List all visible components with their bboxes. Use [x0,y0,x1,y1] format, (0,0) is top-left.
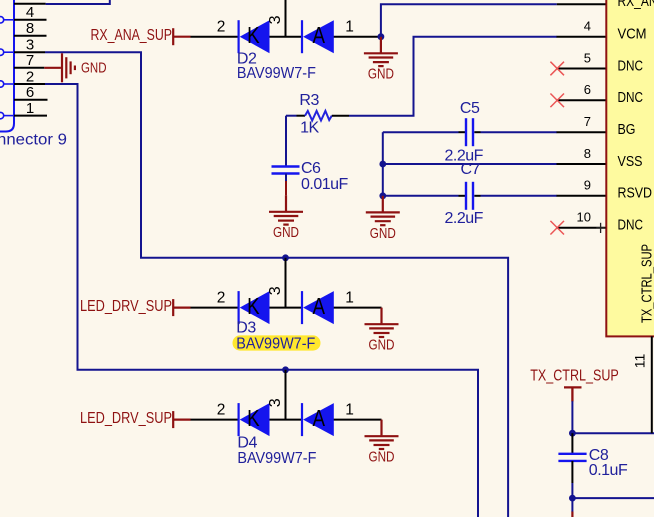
ground at D3 pin1 [365,308,399,354]
wire top-left pin exiting top [46,0,110,4]
svg-text:0.01uF: 0.01uF [301,176,349,193]
wire D2 node up to IC pin RX_ANA [381,4,557,36]
wire pin3 to D3 rail and down right side [45,52,508,517]
power port RX_ANA_SUP [91,27,191,45]
IC pin 8 VSS [557,146,643,170]
svg-text:1: 1 [26,100,34,117]
svg-text:A: A [313,405,326,431]
wire C6 down to ground [285,174,287,183]
svg-text:10: 10 [577,210,591,225]
connector pin 4 [14,4,47,21]
svg-text:6: 6 [584,82,591,97]
svg-text:DNC: DNC [618,58,644,74]
wire bottom node down [571,498,573,512]
svg-text:C7: C7 [461,161,481,178]
ground at D4 pin1 [365,420,399,466]
svg-text:TX_CTRL_SUP: TX_CTRL_SUP [639,244,654,323]
svg-text:2.2uF: 2.2uF [445,210,484,227]
svg-text:4: 4 [26,4,34,21]
svg-text:BAV99W7-F: BAV99W7-F [237,65,316,82]
wire C5/C7 left vertical [382,132,384,196]
svg-text:RSVD: RSVD [618,186,653,202]
svg-text:7: 7 [26,52,34,69]
junction dot TX node [569,430,576,437]
svg-text:4: 4 [584,19,591,34]
wire VSS row [383,163,557,165]
svg-text:8: 8 [26,20,34,37]
svg-text:3: 3 [267,398,284,407]
junction dot D4 rail [282,366,289,373]
svg-text:2: 2 [217,290,226,307]
junction dot D2 pin1 node [378,33,385,40]
capacitor C8 [558,447,628,479]
wire D4 pin3 up to rail [285,370,287,420]
junction dot D3 rail [282,254,289,261]
svg-text:8: 8 [584,146,591,161]
svg-text:9: 9 [584,178,591,193]
svg-text:K: K [247,293,260,319]
connector pin 1 [14,100,47,117]
wire LED_DRV_SUP to D4 [191,419,239,421]
svg-text:1K: 1K [300,120,319,137]
junction dot RSVD [379,192,386,199]
diode D4 BAV99W7-F [217,398,382,467]
capacitor C7 [445,161,484,227]
svg-text:3: 3 [267,286,284,295]
svg-text:6: 6 [26,84,34,101]
resistor R3 [286,92,332,137]
IC pin 4 VCM [557,19,647,43]
wire RSVD row with C7 [383,195,557,197]
svg-text:RX_ANA_SUP: RX_ANA_SUP [91,27,173,44]
svg-text:3: 3 [26,37,34,54]
connector pin 7 [14,52,44,69]
wire TX node to right edge [572,432,654,434]
IC pin 11 TX_CTRL_SUP (bottom) [632,244,654,433]
wire bottom node to right edge [572,497,654,499]
wire TX_CTRL_SUP down [571,401,573,433]
power port LED_DRV_SUP (D3) [80,298,191,316]
junction dot VSS [379,161,386,168]
wire pin2 to D4 rail and down right side [45,84,478,517]
op-amp U? IC body (yellow) [606,0,654,336]
svg-text:1: 1 [345,290,354,307]
capacitor C5 [445,100,484,165]
IC pin RX_ANA (top) [557,0,654,10]
svg-text:LED_DRV_SUP: LED_DRV_SUP [80,298,172,315]
svg-text:11: 11 [632,354,648,369]
IC pin 9 RSVD [557,178,653,202]
svg-text:BAV99W7-F: BAV99W7-F [237,450,316,467]
IC pin 6 DNC [550,82,643,107]
svg-text:DNC: DNC [618,90,644,106]
wire D2 pin3 up to sheet top [285,0,287,37]
wire D3 pin3 up to rail [285,258,287,308]
svg-text:LED_DRV_SUP: LED_DRV_SUP [80,410,172,427]
svg-text:RX_ANA: RX_ANA [618,0,654,10]
svg-text:1: 1 [345,402,354,419]
svg-text:VCM: VCM [618,27,647,43]
svg-text:DNC: DNC [618,218,644,234]
diode D2 BAV99W7-F [217,15,381,81]
svg-text:R3: R3 [299,92,319,109]
svg-text:VSS: VSS [618,154,643,170]
svg-text:2: 2 [217,19,226,36]
ground below C6 [269,195,303,241]
svg-text:K: K [247,405,260,431]
wire R3 left down to C6 [285,116,287,167]
connector pin 3 [14,37,45,54]
svg-text:3: 3 [267,15,284,24]
svg-text:TX_CTRL_SUP: TX_CTRL_SUP [530,368,619,385]
wire LED_DRV_SUP to D3 [191,307,239,309]
ground below C5/C7 [366,196,400,242]
svg-text:C5: C5 [460,100,480,117]
wire TX node down to C8 [571,433,573,454]
IC pin 5 DNC [550,50,643,75]
svg-text:C6: C6 [301,160,321,177]
svg-text:K: K [247,22,260,48]
svg-text:GND: GND [81,60,107,76]
wire R3 right to VCM [332,115,349,117]
svg-text:1: 1 [345,19,354,36]
connector pin top (number hidden above) [14,3,46,5]
svg-text:BAV99W7-F: BAV99W7-F [236,335,315,352]
cursor crosshair at pin 10 [596,223,605,233]
svg-text:5: 5 [584,50,591,65]
svg-text:7: 7 [584,114,591,129]
connector pin 8 [14,20,47,37]
ground rotated at connector pin 7 [44,53,106,82]
svg-text:nnector 9: nnector 9 [0,132,67,149]
svg-text:A: A [313,22,326,48]
power port TX_CTRL_SUP [530,368,619,402]
IC pin 10 DNC [550,210,643,235]
ground at D2 pin1 [364,37,398,83]
connector pin 2 [14,68,45,85]
svg-text:D3: D3 [236,319,256,336]
svg-text:2: 2 [26,68,34,85]
wire C8 down to bottom node [571,461,573,483]
junction dot bottom node [569,495,576,502]
wire BG row with C5 [383,131,557,133]
diode D3 BAV99W7-F [217,286,382,352]
power port LED_DRV_SUP (D4) [80,410,191,428]
capacitor C6 [272,160,349,193]
svg-text:BG: BG [618,122,636,138]
svg-text:0.1uF: 0.1uF [589,462,628,479]
connector pin 6 [14,84,48,101]
connector J Connector 9 body [0,0,14,132]
power stub at bottom edge [571,512,573,517]
svg-text:A: A [313,293,326,319]
wire RX_ANA_SUP to D2 [191,36,239,38]
svg-text:2: 2 [217,402,226,419]
connector pin cup circles [0,17,13,119]
IC pin 7 BG [557,114,636,138]
